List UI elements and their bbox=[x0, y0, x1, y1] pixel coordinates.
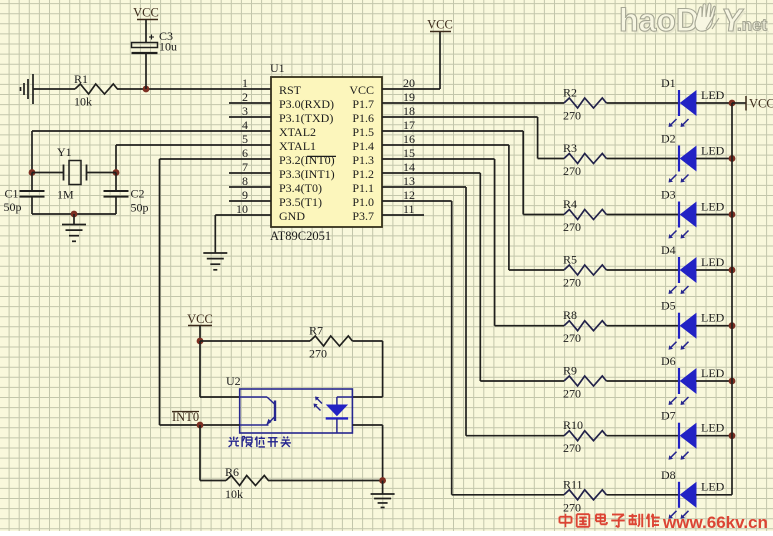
svg-text:P3.7: P3.7 bbox=[352, 209, 374, 223]
svg-text:P1.7: P1.7 bbox=[352, 97, 374, 111]
svg-text:270: 270 bbox=[563, 500, 581, 514]
LED D5 bbox=[661, 299, 725, 350]
svg-text:R3: R3 bbox=[563, 141, 577, 155]
pin 11 stub bbox=[382, 214, 424, 216]
wire R5 to D4 bbox=[606, 269, 679, 271]
wire R7 to U2 anode bbox=[352, 340, 382, 342]
wire U1 pin 10 (GND) to ground bbox=[215, 214, 271, 216]
wire R1 to U1 pin 1 bbox=[117, 88, 271, 90]
ground (U2/R6) bbox=[382, 481, 384, 495]
svg-text:P3.3(INT1): P3.3(INT1) bbox=[279, 167, 335, 181]
svg-text:9: 9 bbox=[242, 188, 248, 202]
svg-text:RST: RST bbox=[279, 83, 302, 97]
svg-text:R10: R10 bbox=[563, 418, 583, 432]
watermark 中国电子制作www.66kv.cn bbox=[560, 513, 768, 532]
svg-text:R1: R1 bbox=[74, 72, 88, 86]
crystal Y1 bbox=[32, 145, 116, 202]
svg-text:LED: LED bbox=[701, 88, 725, 102]
svg-text:P1.5: P1.5 bbox=[352, 125, 374, 139]
LED D1 bbox=[661, 76, 725, 127]
svg-text:P3.0(RXD): P3.0(RXD) bbox=[279, 97, 334, 111]
wire D1 to VCC rail bbox=[696, 102, 732, 104]
svg-text:VCC: VCC bbox=[133, 6, 159, 20]
svg-text:270: 270 bbox=[563, 164, 581, 178]
svg-text:11: 11 bbox=[403, 202, 415, 216]
U2 IR LED bbox=[314, 397, 353, 433]
wire U1 pin 18 to R3 bbox=[382, 116, 538, 118]
wire U1 pin 20 to VCC bbox=[382, 88, 440, 90]
svg-text:1: 1 bbox=[242, 76, 248, 90]
LED D2 bbox=[661, 132, 725, 183]
svg-text:D1: D1 bbox=[661, 76, 676, 90]
svg-text:P1.2: P1.2 bbox=[352, 167, 374, 181]
svg-text:12: 12 bbox=[403, 188, 415, 202]
wire U1 pin 16 to R5 bbox=[382, 144, 509, 146]
svg-text:U1: U1 bbox=[270, 61, 285, 75]
svg-text:AT89C2051: AT89C2051 bbox=[270, 229, 331, 243]
wire U1 pin 12 to R11 bbox=[382, 200, 452, 202]
svg-text:LED: LED bbox=[701, 366, 725, 380]
junction VCC rail node 4 bbox=[729, 267, 736, 274]
svg-text:270: 270 bbox=[563, 276, 581, 290]
wire VCC to U2 collector bbox=[199, 341, 201, 397]
wire U1 pin 13 to R10 bbox=[382, 186, 466, 188]
wire D7 to VCC rail bbox=[696, 435, 732, 437]
ground (crystal) bbox=[73, 214, 75, 224]
svg-text:XTAL1: XTAL1 bbox=[279, 139, 316, 153]
power VCC (right rail) bbox=[746, 96, 773, 111]
wire D4 to VCC rail bbox=[696, 269, 732, 271]
pin 8 stub bbox=[229, 186, 271, 188]
svg-text:R11: R11 bbox=[563, 477, 583, 491]
svg-text:R6: R6 bbox=[225, 465, 239, 479]
svg-text:D7: D7 bbox=[661, 409, 676, 423]
svg-text:C2: C2 bbox=[131, 187, 145, 201]
junction VCC rail node 2 bbox=[729, 155, 736, 162]
wire U2 cathode to ground bbox=[352, 424, 382, 426]
svg-text:VCC: VCC bbox=[187, 312, 213, 326]
junction VCC rail node 6 bbox=[729, 378, 736, 385]
wire U1 pin 6 (INT0) to U2 bbox=[160, 158, 272, 160]
resistor R2 bbox=[563, 86, 606, 123]
svg-text:R7: R7 bbox=[309, 324, 323, 338]
wire R9 to D6 bbox=[606, 380, 679, 382]
resistor R9 bbox=[563, 364, 606, 401]
wire R10 to D7 bbox=[606, 435, 679, 437]
wire R11 to D8 bbox=[606, 494, 679, 496]
svg-text:VCC: VCC bbox=[749, 97, 773, 111]
svg-text:P3.4(T0): P3.4(T0) bbox=[279, 181, 322, 195]
wire VCC to R7 bbox=[200, 340, 310, 342]
pin 9 stub bbox=[229, 200, 271, 202]
resistor R8 bbox=[563, 308, 606, 345]
svg-text:P1.6: P1.6 bbox=[352, 111, 374, 125]
resistor R10 bbox=[563, 418, 606, 455]
junction VCC rail node 3 bbox=[729, 211, 736, 218]
svg-text:270: 270 bbox=[563, 441, 581, 455]
wire U1 pin 17 to R4 bbox=[382, 130, 523, 132]
junction XTAL2 node bbox=[29, 169, 36, 176]
svg-text:VCC: VCC bbox=[427, 18, 453, 32]
svg-text:1M: 1M bbox=[57, 188, 74, 202]
net label INT0 bbox=[172, 410, 199, 424]
capacitor C3 bbox=[132, 29, 178, 89]
ground GND-left (power ground) bbox=[21, 74, 34, 104]
U2 phototransistor bbox=[240, 397, 275, 426]
svg-text:4: 4 bbox=[242, 118, 248, 132]
power VCC (bottom) bbox=[187, 312, 213, 341]
wire R6 to ground bbox=[268, 480, 383, 482]
svg-text:D2: D2 bbox=[661, 132, 676, 146]
svg-text:16: 16 bbox=[403, 132, 415, 146]
LED D3 bbox=[661, 188, 725, 239]
wire U1 pin 19 to R2 bbox=[382, 102, 564, 104]
label 光限位开关 bbox=[229, 437, 291, 447]
wire R8 to D5 bbox=[606, 325, 679, 327]
wire D8 to VCC rail bbox=[696, 494, 732, 496]
svg-text:D5: D5 bbox=[661, 299, 676, 313]
svg-text:10k: 10k bbox=[225, 487, 243, 501]
svg-text:14: 14 bbox=[403, 160, 415, 174]
svg-text:LED: LED bbox=[701, 199, 725, 213]
junction VCC rail node 1 bbox=[729, 100, 736, 107]
wire D5 to VCC rail bbox=[696, 325, 732, 327]
svg-text:8: 8 bbox=[242, 174, 248, 188]
junction crystal ground node bbox=[71, 211, 78, 218]
LED D6 bbox=[661, 354, 725, 405]
svg-text:R9: R9 bbox=[563, 364, 577, 378]
svg-text:Y1: Y1 bbox=[57, 145, 72, 159]
svg-text:XTAL2: XTAL2 bbox=[279, 125, 316, 139]
svg-text:P3.5(T1): P3.5(T1) bbox=[279, 195, 322, 209]
svg-text:270: 270 bbox=[563, 331, 581, 345]
wire U1 pin 5 (XTAL1) to Y1 bbox=[116, 144, 271, 146]
wire VCC rail (right) bbox=[731, 103, 733, 495]
svg-text:7: 7 bbox=[242, 160, 248, 174]
svg-text:www.66kv.cn: www.66kv.cn bbox=[662, 513, 768, 531]
svg-text:P1.4: P1.4 bbox=[352, 139, 374, 153]
LED D8 bbox=[661, 468, 725, 519]
svg-text:P1.3: P1.3 bbox=[352, 153, 374, 167]
svg-text:P1.0: P1.0 bbox=[352, 195, 374, 209]
junction INT0/R6 node bbox=[197, 422, 204, 429]
wire R3 to D2 bbox=[606, 158, 679, 160]
svg-text:D8: D8 bbox=[661, 468, 676, 482]
svg-text:19: 19 bbox=[403, 90, 415, 104]
resistor R4 bbox=[563, 197, 606, 234]
resistor R11 bbox=[563, 477, 606, 514]
svg-text:13: 13 bbox=[403, 174, 415, 188]
resistor R5 bbox=[563, 253, 606, 290]
wire rail to VCC port bbox=[732, 102, 746, 104]
svg-text:VCC: VCC bbox=[349, 83, 374, 97]
resistor R6 bbox=[225, 465, 268, 501]
svg-text:270: 270 bbox=[563, 387, 581, 401]
resistor R7 bbox=[309, 324, 352, 361]
wire U1 pin 15 to R8 bbox=[382, 158, 495, 160]
wire D3 to VCC rail bbox=[696, 214, 732, 216]
svg-text:R5: R5 bbox=[563, 253, 577, 267]
svg-text:C1: C1 bbox=[5, 187, 19, 201]
junction VCC/R7 node bbox=[197, 338, 204, 345]
svg-text:R4: R4 bbox=[563, 197, 577, 211]
svg-text:10: 10 bbox=[236, 202, 248, 216]
svg-text:270: 270 bbox=[309, 347, 327, 361]
svg-text:15: 15 bbox=[403, 146, 415, 160]
svg-text:270: 270 bbox=[563, 220, 581, 234]
svg-text:D3: D3 bbox=[661, 188, 676, 202]
svg-text:haoD: haoD bbox=[619, 2, 699, 38]
svg-text:LED: LED bbox=[701, 255, 725, 269]
wire U1 pin 14 to R9 bbox=[382, 172, 480, 174]
svg-text:R8: R8 bbox=[563, 308, 577, 322]
svg-text:20: 20 bbox=[403, 76, 415, 90]
pin 3 stub bbox=[229, 116, 271, 118]
svg-text:50p: 50p bbox=[4, 200, 22, 214]
svg-text:6: 6 bbox=[242, 146, 248, 160]
junction VCC rail node 7 bbox=[729, 432, 736, 439]
svg-text:5: 5 bbox=[242, 132, 248, 146]
svg-text:P3.2(INT0): P3.2(INT0) bbox=[279, 153, 335, 167]
svg-text:D6: D6 bbox=[661, 354, 676, 368]
resistor R3 bbox=[563, 141, 606, 178]
svg-text:R2: R2 bbox=[563, 86, 577, 100]
capacitor C1 bbox=[4, 173, 45, 215]
junction RST/C3 node bbox=[143, 86, 150, 93]
svg-text:50p: 50p bbox=[131, 201, 149, 215]
wire R4 to D3 bbox=[606, 214, 679, 216]
optocoupler U2 body bbox=[240, 389, 353, 433]
wire R2 to D1 bbox=[606, 102, 679, 104]
svg-text:270: 270 bbox=[563, 109, 581, 123]
svg-text:10u: 10u bbox=[159, 40, 177, 54]
pin 7 stub bbox=[229, 172, 271, 174]
svg-text:3: 3 bbox=[242, 104, 248, 118]
svg-text:18: 18 bbox=[403, 104, 415, 118]
svg-text:LED: LED bbox=[701, 143, 725, 157]
power VCC (pin 20) bbox=[427, 18, 453, 32]
junction VCC rail node 5 bbox=[729, 322, 736, 329]
pin 2 stub bbox=[229, 102, 271, 104]
power VCC (top left) bbox=[133, 6, 159, 43]
junction XTAL1 node bbox=[113, 169, 120, 176]
svg-text:17: 17 bbox=[403, 118, 415, 132]
svg-text:P3.1(TXD): P3.1(TXD) bbox=[279, 111, 333, 125]
svg-text:2: 2 bbox=[242, 90, 248, 104]
IC U1 AT89C2051 body bbox=[271, 77, 382, 227]
svg-text:LED: LED bbox=[701, 421, 725, 435]
svg-text:D4: D4 bbox=[661, 243, 676, 257]
ground (U1 GND) bbox=[203, 252, 227, 254]
wire D2 to VCC rail bbox=[696, 158, 732, 160]
wire gnd-left to R1 bbox=[33, 88, 75, 90]
wire D6 to VCC rail bbox=[696, 380, 732, 382]
junction ground node bbox=[379, 477, 386, 484]
wire C1 to C2 bottom rail bbox=[32, 213, 116, 215]
svg-text:.net: .net bbox=[737, 16, 768, 35]
svg-text:U2: U2 bbox=[226, 374, 241, 388]
resistor R1 bbox=[74, 72, 117, 109]
svg-text:10k: 10k bbox=[74, 95, 92, 109]
watermark logo haoDIY.net bbox=[621, 4, 770, 40]
svg-text:LED: LED bbox=[701, 480, 725, 494]
svg-text:LED: LED bbox=[701, 311, 725, 325]
svg-text:P1.1: P1.1 bbox=[352, 181, 374, 195]
capacitor C2 bbox=[104, 173, 149, 215]
svg-text:GND: GND bbox=[279, 209, 305, 223]
wire INT0 to R6 bbox=[199, 425, 201, 481]
LED D4 bbox=[661, 243, 725, 294]
LED D7 bbox=[661, 409, 725, 460]
wire U1 pin 4 (XTAL2) to Y1 bbox=[32, 130, 271, 132]
